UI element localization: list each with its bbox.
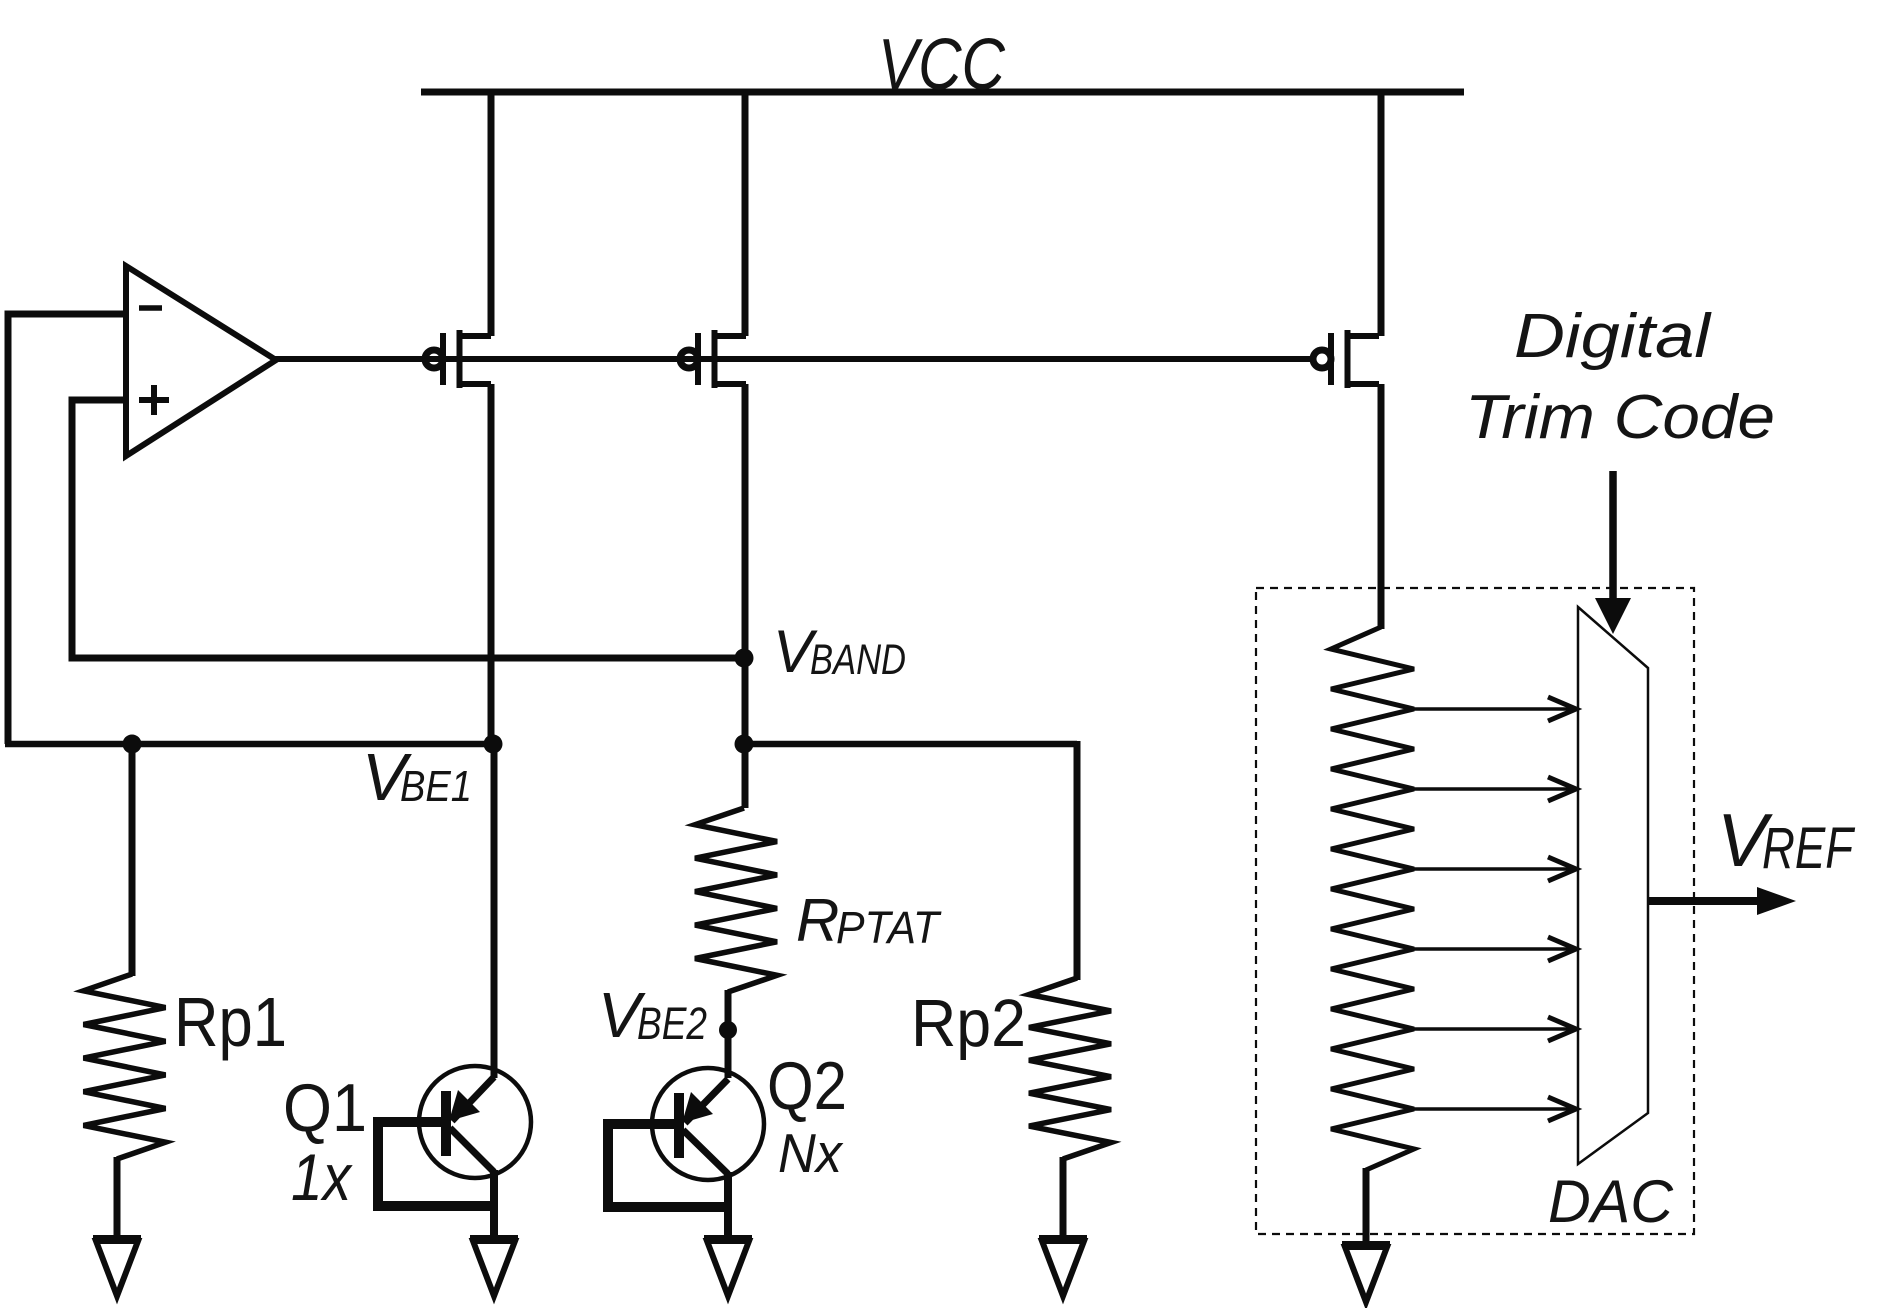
svg-text:Rp1: Rp1 — [174, 983, 287, 1061]
svg-text:PTAT: PTAT — [836, 902, 942, 953]
svg-text:R: R — [796, 887, 839, 954]
svg-text:Nx: Nx — [778, 1122, 844, 1184]
svg-text:Digital: Digital — [1514, 302, 1713, 371]
svg-text:BE1: BE1 — [400, 762, 472, 811]
svg-text:BE2: BE2 — [637, 998, 707, 1049]
svg-text:REF: REF — [1762, 816, 1856, 881]
svg-text:Q2: Q2 — [767, 1048, 847, 1124]
svg-text:Rp2: Rp2 — [911, 986, 1026, 1061]
svg-text:1x: 1x — [291, 1140, 353, 1214]
svg-text:VCC: VCC — [878, 25, 1006, 105]
svg-text:DAC: DAC — [1548, 1168, 1674, 1235]
svg-text:Q1: Q1 — [283, 1070, 367, 1146]
svg-text:Trim Code: Trim Code — [1465, 383, 1775, 452]
svg-text:BAND: BAND — [810, 636, 906, 684]
